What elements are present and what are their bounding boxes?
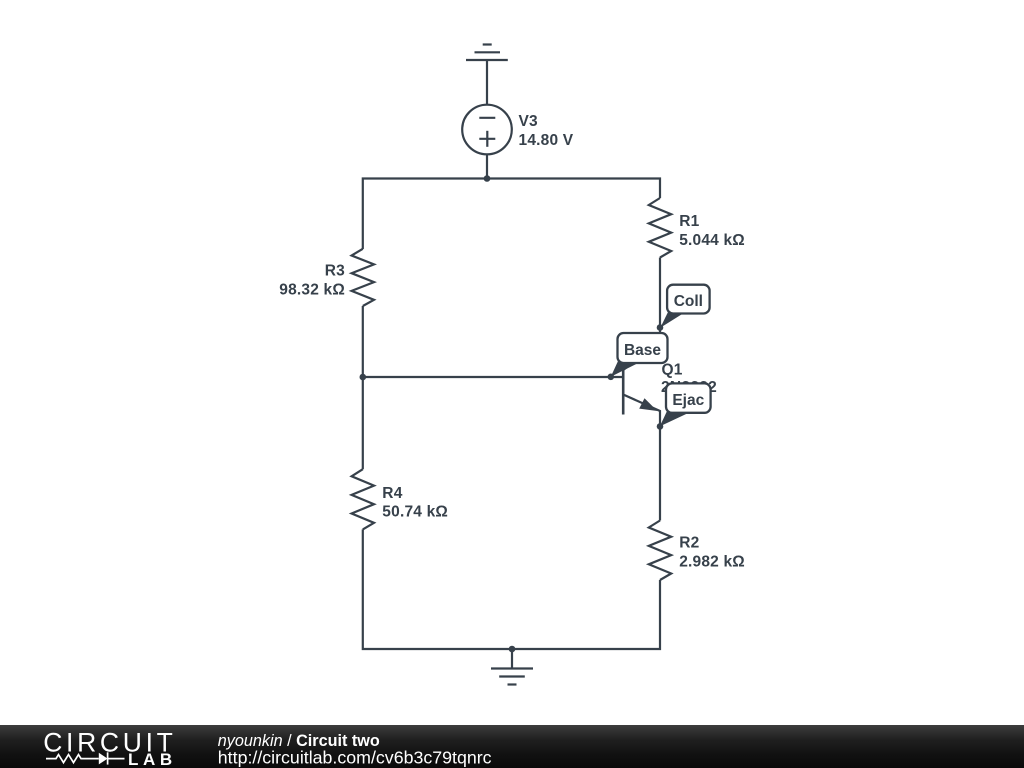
svg-text:Coll: Coll (674, 293, 703, 310)
svg-text:LAB: LAB (128, 750, 177, 768)
svg-text:50.74 kΩ: 50.74 kΩ (382, 504, 448, 521)
svg-text:V3: V3 (519, 113, 539, 130)
svg-text:2.982 kΩ: 2.982 kΩ (679, 553, 745, 570)
svg-text:Q1: Q1 (662, 362, 683, 379)
svg-text:R3: R3 (325, 262, 345, 279)
svg-text:R4: R4 (382, 485, 402, 502)
svg-text:5.044 kΩ: 5.044 kΩ (679, 232, 745, 249)
svg-text:14.80 V: 14.80 V (519, 132, 574, 149)
svg-text:Ejac: Ejac (672, 392, 704, 409)
svg-text:R1: R1 (679, 213, 699, 230)
svg-text:R2: R2 (679, 535, 699, 552)
svg-text:Base: Base (624, 342, 661, 359)
svg-text:http://circuitlab.com/cv6b3c79: http://circuitlab.com/cv6b3c79tqnrc (218, 748, 492, 768)
svg-text:98.32 kΩ: 98.32 kΩ (279, 281, 345, 298)
